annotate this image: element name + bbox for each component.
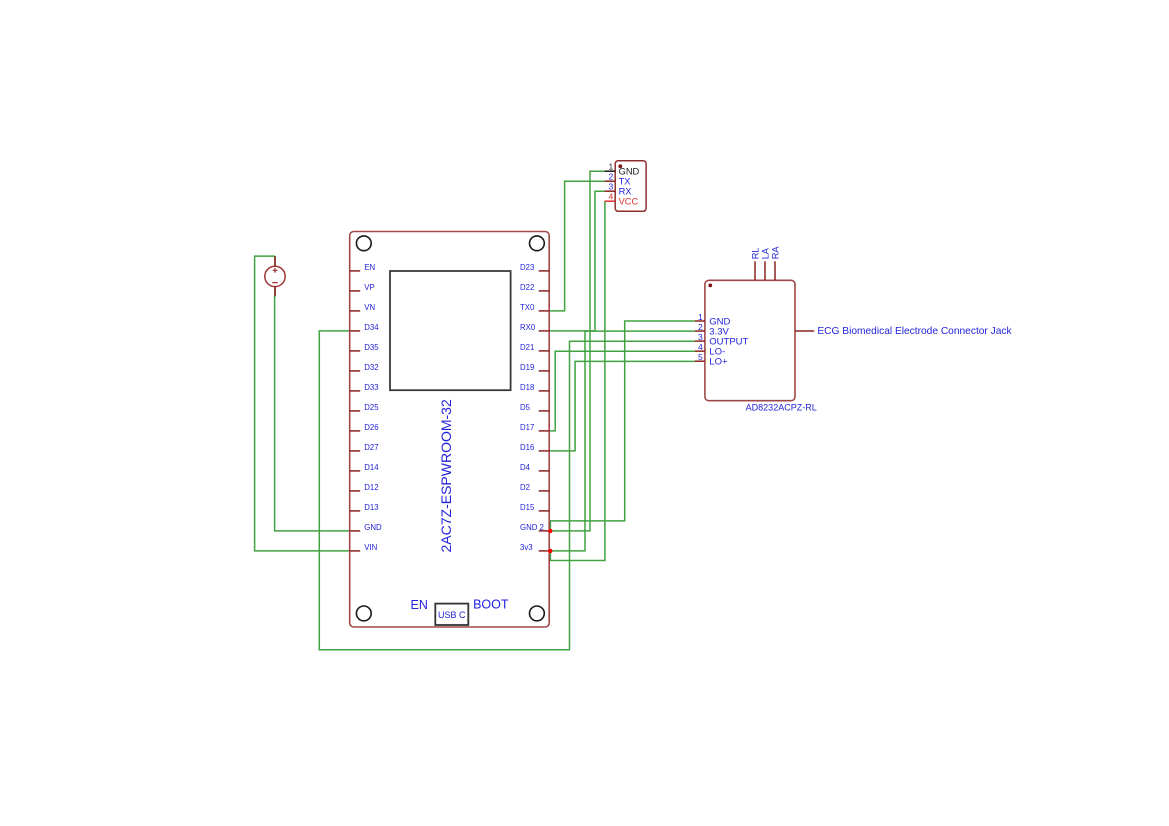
- svg-text:D2: D2: [520, 483, 530, 492]
- svg-text:D18: D18: [520, 383, 534, 392]
- svg-text:2: 2: [698, 322, 703, 332]
- svg-text:D19: D19: [520, 363, 534, 372]
- svg-text:2AC7Z-ESPWROOM-32: 2AC7Z-ESPWROOM-32: [438, 399, 454, 552]
- svg-text:D27: D27: [364, 443, 378, 452]
- svg-text:D12: D12: [364, 483, 378, 492]
- svg-text:D25: D25: [364, 403, 379, 412]
- svg-text:BOOT: BOOT: [473, 598, 509, 612]
- svg-text:GND 2: GND 2: [520, 523, 544, 532]
- svg-text:4: 4: [698, 342, 703, 352]
- svg-text:RX0: RX0: [520, 323, 536, 332]
- svg-text:D17: D17: [520, 423, 534, 432]
- svg-text:RX: RX: [619, 186, 632, 196]
- svg-text:2: 2: [608, 172, 613, 182]
- svg-text:RA: RA: [770, 246, 780, 260]
- svg-text:AD8232ACPZ-RL: AD8232ACPZ-RL: [746, 402, 817, 412]
- svg-text:VP: VP: [364, 283, 374, 292]
- svg-text:D14: D14: [364, 463, 379, 472]
- svg-text:D35: D35: [364, 343, 379, 352]
- svg-text:1: 1: [698, 312, 703, 322]
- svg-text:VCC: VCC: [619, 196, 639, 206]
- svg-text:D33: D33: [364, 383, 378, 392]
- svg-text:D5: D5: [520, 403, 531, 412]
- svg-text:VIN: VIN: [364, 543, 377, 552]
- svg-text:EN: EN: [411, 598, 428, 612]
- svg-text:D32: D32: [364, 363, 378, 372]
- svg-text:RL: RL: [750, 248, 760, 260]
- svg-text:D16: D16: [520, 443, 534, 452]
- svg-text:3: 3: [608, 182, 613, 192]
- svg-text:EN: EN: [364, 263, 375, 272]
- svg-text:D22: D22: [520, 283, 534, 292]
- svg-text:D23: D23: [520, 263, 534, 272]
- svg-text:TX: TX: [619, 176, 631, 186]
- svg-text:1: 1: [608, 162, 613, 172]
- svg-text:VN: VN: [364, 303, 375, 312]
- svg-text:5: 5: [698, 352, 703, 362]
- svg-text:GND: GND: [619, 166, 640, 176]
- svg-text:GND: GND: [364, 523, 382, 532]
- svg-text:TX0: TX0: [520, 303, 535, 312]
- svg-text:D34: D34: [364, 323, 379, 332]
- svg-text:3: 3: [698, 332, 703, 342]
- svg-text:D21: D21: [520, 343, 534, 352]
- svg-text:3v3: 3v3: [520, 543, 533, 552]
- svg-text:LO+: LO+: [709, 357, 728, 368]
- svg-text:D4: D4: [520, 463, 531, 472]
- svg-text:USB C: USB C: [438, 610, 466, 620]
- svg-text:LA: LA: [760, 247, 770, 259]
- svg-text:D15: D15: [520, 503, 535, 512]
- svg-text:D26: D26: [364, 423, 378, 432]
- svg-text:D13: D13: [364, 503, 378, 512]
- svg-text:4: 4: [608, 192, 613, 202]
- svg-text:ECG Biomedical Electrode Conne: ECG Biomedical Electrode Connector Jack: [817, 326, 1012, 337]
